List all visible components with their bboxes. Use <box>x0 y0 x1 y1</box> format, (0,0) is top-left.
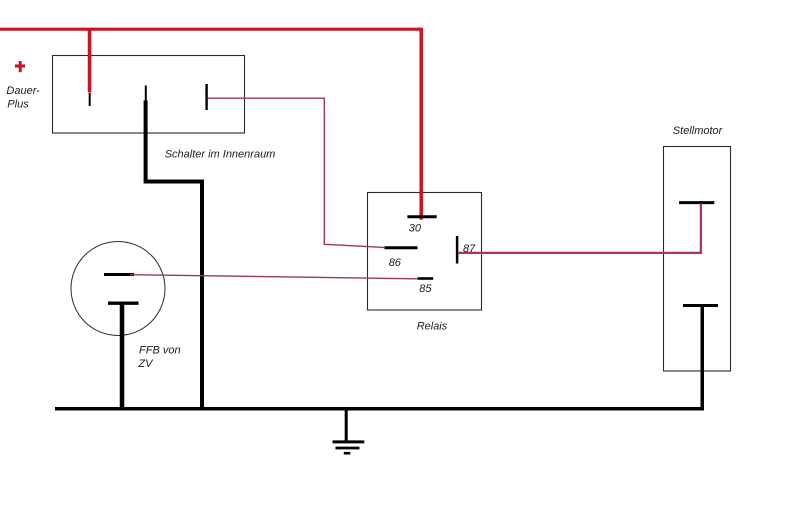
svg-text:Stellmotor: Stellmotor <box>673 125 724 137</box>
svg-text:30: 30 <box>409 222 422 234</box>
svg-text:Dauer-: Dauer- <box>6 85 40 97</box>
svg-text:86: 86 <box>389 257 402 269</box>
svg-text:85: 85 <box>419 283 432 295</box>
svg-text:Relais: Relais <box>417 321 448 333</box>
svg-text:ZV: ZV <box>137 358 154 370</box>
svg-text:87: 87 <box>463 243 476 255</box>
svg-text:Schalter im Innenraum: Schalter im Innenraum <box>165 149 276 161</box>
svg-text:Plus: Plus <box>7 98 29 110</box>
svg-text:FFB von: FFB von <box>139 344 181 356</box>
